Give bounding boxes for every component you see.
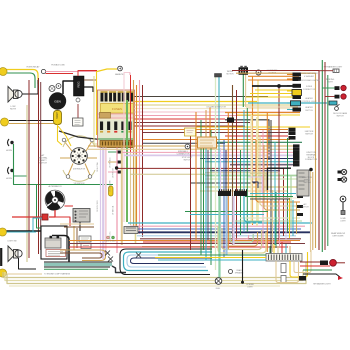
svg-text:COLUMN CONNECTOR: COLUMN CONNECTOR xyxy=(206,107,227,109)
relay block: convertible top (gray) xyxy=(297,170,309,196)
wire: radio tan feed xyxy=(246,106,298,108)
battery B1 (gray) xyxy=(45,236,61,248)
svg-text:SWITCH: SWITCH xyxy=(39,163,47,165)
wire: coil feed diagonal (yellow) xyxy=(58,126,71,146)
connector: steering column plugs xyxy=(108,151,122,174)
wire loops: rear harness hairpins (right) xyxy=(120,249,212,275)
connector: stop light black plug xyxy=(227,118,234,123)
svg-text:SWITCH: SWITCH xyxy=(305,110,313,112)
connector: dash panel tan plug xyxy=(198,137,217,148)
label: HORN RELAY + terminal xyxy=(27,66,46,74)
wire: lower teal/green returns xyxy=(245,194,296,200)
relay boxes: horn relay / starter relay xyxy=(79,236,91,249)
connector: trunk black plug xyxy=(299,276,306,281)
connector: under-dash comb plugs xyxy=(218,189,247,196)
marker lamp arrow xyxy=(313,276,343,286)
label: firewall connector xyxy=(177,150,190,156)
cigarette lighter terminal xyxy=(256,70,261,75)
svg-text:LIGHT SW: LIGHT SW xyxy=(7,241,16,243)
svg-text:CONTROL LIGHT: CONTROL LIGHT xyxy=(301,101,317,103)
label: firewall texts xyxy=(206,107,227,109)
wire: horn green drop to junction xyxy=(37,185,47,228)
courtesy bulbs right xyxy=(338,169,347,174)
wire bundle: fuse box down-feed (lavender/pink/pale) xyxy=(101,148,136,260)
svg-text:DEFOGGER: DEFOGGER xyxy=(333,235,344,237)
svg-text:18 GRN ACC: 18 GRN ACC xyxy=(109,157,112,168)
label: RH marker light (top right) xyxy=(324,66,343,69)
wire: firewall top link xyxy=(124,73,130,81)
label box: horn relay & battery xyxy=(46,250,66,257)
wire grid: dash harness horizontals xyxy=(88,115,310,236)
splice: red junction block xyxy=(42,214,48,220)
svg-text:18 TAN GA: 18 TAN GA xyxy=(112,205,115,215)
svg-text:FUSES: FUSES xyxy=(112,107,122,111)
svg-text:TO ENGINE COMPT HARNESS: TO ENGINE COMPT HARNESS xyxy=(44,273,71,276)
svg-text:NOTE: NOTE xyxy=(10,109,17,111)
svg-text:18 YEL B+: 18 YEL B+ xyxy=(110,231,112,240)
wire drops: into bulkhead strip xyxy=(270,242,290,253)
wire: tail feeds right xyxy=(300,262,340,277)
gas gauge sender (circle w/ cross) xyxy=(215,278,222,290)
wire band: main front lighting harness (teal) xyxy=(44,262,112,269)
voltmeter (yellow capsule VOLT) xyxy=(54,111,62,125)
battery box (outer) xyxy=(41,226,67,259)
svg-text:CONNECTOR: CONNECTOR xyxy=(305,159,318,161)
node L1: left headlight terminal (yellow circle) xyxy=(0,68,7,76)
svg-text:GEN: GEN xyxy=(54,100,61,104)
tail light assembly RH xyxy=(320,259,336,266)
parking light bulb P2 xyxy=(335,94,347,99)
svg-text:18 LAV DOME: 18 LAV DOME xyxy=(109,180,112,192)
svg-text:FUSIBLE LINK: FUSIBLE LINK xyxy=(51,65,65,67)
wire bundle: kick panel verticals xyxy=(273,190,297,252)
labels: harness wire codes (vertical) xyxy=(96,157,114,240)
wire: accessory yellows xyxy=(246,90,300,97)
wire bundle: rear body harness (teal/blue/navy) xyxy=(128,223,312,242)
label: windshield wiper motor xyxy=(226,71,234,75)
wire: horn H1 to relay (black) xyxy=(22,80,38,94)
wire: horn H4 lead (black) xyxy=(19,258,37,269)
svg-text:CONNECTOR: CONNECTOR xyxy=(303,89,316,91)
svg-text:LIGHT: LIGHT xyxy=(247,286,253,288)
label: HORN xyxy=(6,178,12,180)
wire: points lead (black) xyxy=(59,131,100,140)
connector: kick panel plugs xyxy=(297,195,303,216)
wire: bulkhead feeds xyxy=(155,255,266,260)
wire: rear maroon/red feeders xyxy=(69,244,305,248)
wire: orange dash segment xyxy=(225,112,300,114)
wire bundle: firewall vertical drop xyxy=(124,75,143,237)
wire: column orange drops xyxy=(206,108,210,138)
wire: khaki spans above hairpins xyxy=(142,246,214,248)
label: column texts mid-right xyxy=(301,177,312,208)
wire loops: trunk tan U-turns xyxy=(276,250,311,283)
wire: dark lead under dash xyxy=(130,143,225,174)
parking light bulb P1 xyxy=(335,85,347,90)
generator G1 (black disc) xyxy=(49,92,66,109)
svg-text:HORN: HORN xyxy=(6,150,12,152)
svg-text:RADIO/CIGAR LIGHTER: RADIO/CIGAR LIGHTER xyxy=(298,79,320,82)
svg-text:FUEL: FUEL xyxy=(216,288,221,290)
label: cigarette lighter xyxy=(267,69,279,74)
wire: teal U elbow under combs xyxy=(244,196,262,222)
horn H3 bracket xyxy=(8,167,14,174)
connector dots: floor grommets xyxy=(104,236,116,243)
splice: rear twist junction xyxy=(136,253,141,258)
svg-text:ALTERNATOR: ALTERNATOR xyxy=(48,185,62,188)
small yellow box (heater resistor) xyxy=(185,128,196,136)
label: LOW NOTE xyxy=(10,106,17,111)
wire bundle: lower khaki body loop xyxy=(3,262,306,286)
connector: bulkhead strip xyxy=(266,254,302,262)
wire: right tan pair xyxy=(309,168,313,252)
wire: battery ground (black) xyxy=(0,230,41,232)
wire: marker feed elbow (teal) xyxy=(33,218,42,232)
wire: alternator output (red) xyxy=(12,210,70,226)
connector: heater hose teal plug (right) xyxy=(329,101,337,105)
label: to engine harness xyxy=(44,273,71,276)
wire: wiper motor drop (green/tan pair) xyxy=(243,75,245,108)
node L4: left marker terminal (yellow circle) xyxy=(0,228,7,236)
svg-text:VOLT: VOLT xyxy=(55,112,59,119)
connector: rear harness plug xyxy=(124,227,138,234)
terminals: distributor cap posts xyxy=(62,138,94,178)
fuse box FB1 (bulkhead connector + fuse panel) xyxy=(98,90,135,148)
wire: tail feed from L3 (tan) xyxy=(6,273,42,275)
wire elbows: pale drops xyxy=(248,173,266,193)
ignition switch circle SW1 (distributor) xyxy=(71,148,88,171)
splice: dash junction dot xyxy=(115,166,118,169)
distributor terminal (small circle) xyxy=(49,84,61,92)
wire: pale pink harness band xyxy=(230,163,293,165)
wire: heater feeds (orange pair) xyxy=(248,76,299,80)
svg-text:RH MARKER LIGHT: RH MARKER LIGHT xyxy=(313,283,331,286)
wire bands: comb drop looms (green/blue/lavender) xyxy=(220,196,234,278)
ground strap (left edge) xyxy=(0,248,2,266)
svg-text:RH MARKER LIGHT: RH MARKER LIGHT xyxy=(324,66,343,69)
label: A/T neutral safety switch xyxy=(39,154,48,165)
svg-text:FUSES: FUSES xyxy=(306,86,313,88)
wiper motor M1 xyxy=(239,66,248,75)
wire: right edge red drop xyxy=(337,262,346,264)
dome light xyxy=(340,196,346,222)
wire: license light drop (black) xyxy=(241,250,255,288)
svg-text:HEATER: HEATER xyxy=(305,97,313,100)
inline connector: yellow capsule on harness xyxy=(109,186,114,196)
wire: fuse feed verticals (yellow/pale) xyxy=(94,71,99,144)
wire: alternator to regulator (red link) xyxy=(65,205,74,207)
connector: engine gray block xyxy=(73,209,90,223)
wire loops: heater hose C-loops (tan/brown) xyxy=(60,250,106,261)
label: stop light switch xyxy=(182,144,194,161)
wire loops: under-dash nested turns xyxy=(218,226,266,253)
wire: band elbow to rear (dark) xyxy=(112,266,126,273)
wire: gray box ground drop xyxy=(79,222,81,231)
connector: antenna lead-in xyxy=(215,74,222,78)
svg-text:18 BLK TAIL: 18 BLK TAIL xyxy=(96,162,99,172)
svg-text:PULSE GAP WIPER: PULSE GAP WIPER xyxy=(300,72,318,75)
wire: heater teal feed xyxy=(248,102,327,104)
svg-text:HORN: HORN xyxy=(6,178,12,180)
label: rear speaker xyxy=(229,269,244,274)
svg-text:SWITCH: SWITCH xyxy=(183,159,191,161)
svg-text:LIGHT: LIGHT xyxy=(327,81,333,83)
wires: right of battery box (tan/brown) xyxy=(60,224,94,250)
terminal: ammeter circle xyxy=(115,66,125,76)
regulator aux: small box + terminal xyxy=(73,98,84,126)
wire: top-left horn feed (green) xyxy=(6,73,35,88)
battery cable (black) xyxy=(52,236,69,263)
door jamb switch xyxy=(333,104,348,117)
wire bundle: left vertical trunk (dark red / gray / maroon) xyxy=(27,78,41,262)
connector: marker light plug xyxy=(333,69,339,72)
wire: distributor harness radiating (tan) xyxy=(60,136,97,182)
svg-text:16 RED FEED: 16 RED FEED xyxy=(97,200,99,212)
node L3: left tail terminal (yellow circle) xyxy=(0,269,7,277)
wire grid: lower dash elbows turning to rear xyxy=(185,108,302,232)
svg-text:SWITCH: SWITCH xyxy=(303,182,311,184)
connector stack: ignition switch plug xyxy=(289,128,314,140)
svg-text:SWITCH: SWITCH xyxy=(301,206,309,208)
horn H1 (low note) xyxy=(8,87,22,103)
svg-text:18 PNK IGN: 18 PNK IGN xyxy=(113,167,115,178)
labels: accessory stack xyxy=(298,72,320,112)
horn H2 bracket (high note horn) xyxy=(8,139,14,146)
label: light switch xyxy=(7,241,16,243)
wire: black elbow feed xyxy=(268,168,292,190)
wire: main black feed with splice xyxy=(252,84,300,88)
wire: bulb feeds (green/darkred) xyxy=(319,71,335,97)
svg-text:SWITCH: SWITCH xyxy=(305,133,313,135)
svg-text:HEATER: HEATER xyxy=(305,106,313,109)
label: HORN xyxy=(6,150,12,152)
wire: regulator feeds xyxy=(78,71,97,81)
wire: fusible link run (pink/red) xyxy=(46,72,98,74)
wire: L4 feed (teal) xyxy=(7,231,37,233)
wire: top-left generator feed (yellow) xyxy=(6,70,38,85)
wire: park light feeds xyxy=(9,121,58,124)
wire grid: dash harness verticals xyxy=(191,76,292,278)
wire trio: engine feeds (orange/maroon/red) xyxy=(69,240,300,242)
wire: cowl feed (dark red) xyxy=(232,71,319,251)
svg-text:V8 IGNITION: V8 IGNITION xyxy=(74,183,85,185)
svg-text:REG: REG xyxy=(77,81,81,87)
alternator A1 xyxy=(45,185,65,210)
label: FUSIBLE LINK xyxy=(51,65,65,67)
wire bundle: fuse box to dash (horizontal main) xyxy=(135,97,301,161)
wire: volt to ignition (yellow) xyxy=(58,125,63,146)
node L2: left park light terminal (yellow circle) xyxy=(1,118,9,126)
wire: khaki band riser xyxy=(0,0,1,1)
wire: generator armature (black) xyxy=(63,81,93,94)
svg-text:8 BLK 10 WLD: 8 BLK 10 WLD xyxy=(104,241,116,243)
voltage regulator VR1 (black box) xyxy=(74,76,85,96)
label: 8 cyl ignition xyxy=(74,183,85,185)
wire: horn jumper (green) xyxy=(14,144,114,205)
connector stack: dash accessory plugs xyxy=(287,73,302,112)
label: parking light xyxy=(326,78,335,83)
svg-text:HORN RELAY: HORN RELAY xyxy=(27,66,41,69)
connector: white drops xyxy=(281,264,286,283)
label: rear window defogger xyxy=(331,232,345,237)
wire: to ammeter (yellow) xyxy=(97,69,117,72)
horn H4 (left low note rear) xyxy=(8,246,22,262)
splice: twist junctions xyxy=(105,251,113,262)
svg-text:LIGHT: LIGHT xyxy=(340,220,346,222)
svg-text:DISTRIBUTOR: DISTRIBUTOR xyxy=(73,169,86,171)
wire: cowl feed (tan) xyxy=(236,73,316,248)
svg-text:MOTOR: MOTOR xyxy=(226,73,234,75)
svg-text:SWITCH: SWITCH xyxy=(336,115,344,117)
connector stack: junction terminal block xyxy=(293,144,318,166)
wire: right green runs xyxy=(322,60,328,252)
svg-text:& WASHER: & WASHER xyxy=(304,75,315,78)
